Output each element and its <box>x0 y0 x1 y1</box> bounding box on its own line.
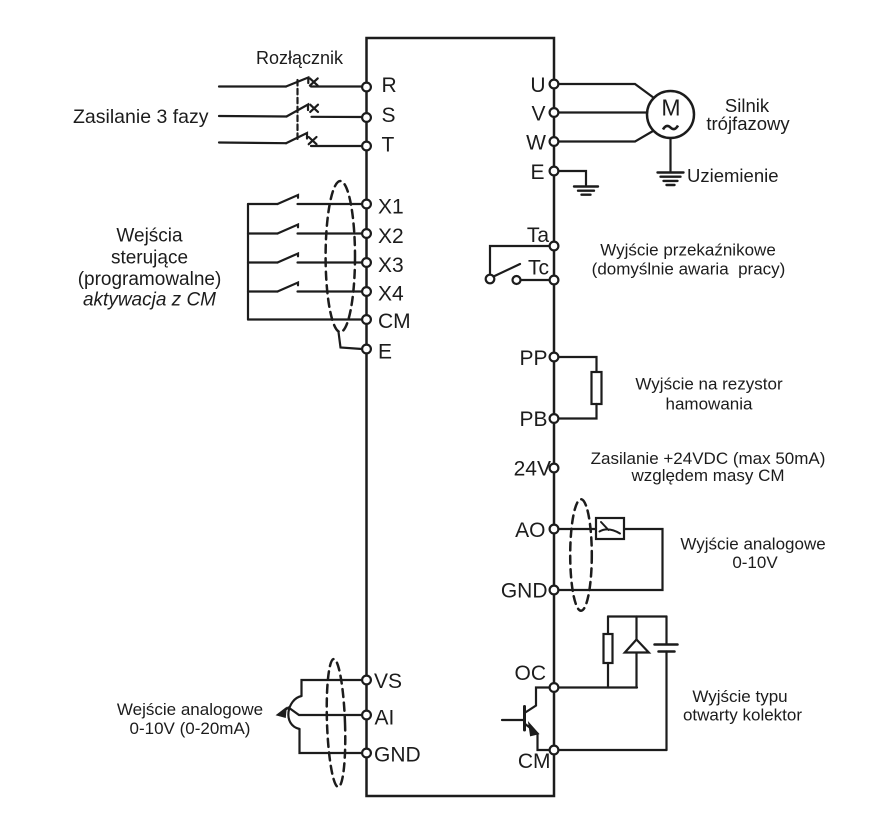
terminal S <box>362 113 371 122</box>
svg-text:0-10V (0-20mA): 0-10V (0-20mA) <box>130 719 251 738</box>
svg-text:Uziemienie: Uziemienie <box>687 165 779 186</box>
wire R to terminal <box>311 85 362 87</box>
switch blade X4 <box>278 283 299 292</box>
capacitor C1 plate 2 <box>659 650 675 653</box>
svg-text:W: W <box>526 132 546 155</box>
terminal Ta <box>550 242 559 251</box>
wire R supply lead <box>219 85 286 87</box>
terminal CM <box>362 315 371 324</box>
svg-text:Wyjście typu: Wyjście typu <box>692 687 787 706</box>
wire W to motor <box>558 131 653 142</box>
svg-text:(programowalne): (programowalne) <box>78 269 222 290</box>
terminal X4 <box>362 287 371 296</box>
svg-text:OC: OC <box>515 662 547 685</box>
svg-text:GND: GND <box>374 744 421 767</box>
terminal AI <box>362 711 371 720</box>
wire S supply lead <box>219 115 287 118</box>
wire VS to pot top <box>302 680 363 696</box>
shield ellipse (analog input) <box>325 659 347 788</box>
resistor R-brake <box>592 372 602 404</box>
terminal X2 <box>362 229 371 238</box>
terminal PP <box>550 353 559 362</box>
svg-text:(domyślnie awaria pracy): (domyślnie awaria pracy) <box>592 260 786 279</box>
relay blade <box>494 264 521 277</box>
svg-text:Wyjście analogowe: Wyjście analogowe <box>680 535 825 554</box>
wire X1 to terminal <box>298 203 363 205</box>
svg-text:Wejścia: Wejścia <box>116 226 183 247</box>
terminal E <box>362 345 371 354</box>
svg-text:U: U <box>530 74 545 97</box>
wire capacitor to CM <box>665 652 667 751</box>
svg-text:PB: PB <box>519 408 547 431</box>
wire X4 to terminal <box>298 290 363 292</box>
transistor Q1 emitter arrow <box>530 725 538 736</box>
terminal X1 <box>362 200 371 209</box>
wire resistor to OC <box>607 663 609 688</box>
terminal OC <box>550 683 559 692</box>
relay pivot contact <box>486 275 495 284</box>
terminal VS <box>362 676 371 685</box>
svg-text:GND: GND <box>501 580 548 603</box>
wire GND to pot bottom <box>300 729 363 753</box>
svg-text:Wyjście na rezystor: Wyjście na rezystor <box>635 375 783 394</box>
svg-text:AO: AO <box>515 519 545 542</box>
ground (E terminal) <box>574 187 598 195</box>
capacitor C1 plate 1 <box>655 643 678 646</box>
contact mark x (T) <box>309 137 317 144</box>
svg-text:S: S <box>382 104 396 127</box>
wire E terminal to ground <box>558 171 586 185</box>
svg-text:Rozłącznik: Rozłącznik <box>256 48 344 68</box>
wire rail to capacitor <box>665 617 667 645</box>
terminal T <box>362 142 371 151</box>
svg-text:X1: X1 <box>378 196 404 219</box>
svg-text:PP: PP <box>519 347 547 370</box>
svg-text:sterujące: sterujące <box>111 248 188 269</box>
wire CM row external <box>558 749 667 751</box>
wire X3 to terminal <box>298 261 363 263</box>
wire motor to earth <box>669 138 671 171</box>
svg-text:E: E <box>378 341 392 364</box>
wire meter to GND loop <box>558 529 663 590</box>
wire AO to meter <box>558 528 596 530</box>
terminal 24V <box>550 464 559 473</box>
wire U to motor <box>558 84 654 98</box>
svg-text:V: V <box>531 103 545 126</box>
transistor Q1 base lead <box>502 719 525 721</box>
transistor Q1 base bar <box>523 707 526 731</box>
PLACE-WIRES4 <box>362 80 558 758</box>
meter needle icon <box>600 522 621 534</box>
motor M1 body <box>647 91 694 138</box>
svg-text:VS: VS <box>374 670 402 693</box>
terminal W <box>550 137 559 146</box>
disconnector mechanical link (dashed) <box>296 80 298 139</box>
switch blade S <box>287 105 309 117</box>
svg-text:0-10V: 0-10V <box>732 553 778 572</box>
svg-text:24V: 24V <box>514 458 551 481</box>
svg-text:trójfazowy: trójfazowy <box>706 113 790 134</box>
svg-text:T: T <box>382 134 395 157</box>
terminal PB <box>550 414 559 423</box>
wiper arrow <box>283 708 289 712</box>
wire T to terminal <box>311 145 362 147</box>
wiper arrowhead <box>278 709 286 717</box>
digital input bus wire <box>247 204 249 320</box>
inverter outline <box>367 38 555 796</box>
svg-text:CM: CM <box>518 750 551 773</box>
svg-text:Tc: Tc <box>528 257 549 280</box>
terminal V <box>550 108 559 117</box>
svg-text:aktywacja z CM: aktywacja z CM <box>83 290 216 311</box>
svg-text:E: E <box>530 161 544 184</box>
wire rail to resistor <box>607 617 609 635</box>
ground (motor earth) <box>658 173 684 186</box>
switch blade X1 <box>278 195 299 204</box>
svg-text:względem masy CM: względem masy CM <box>630 466 784 485</box>
svg-text:otwarty kolektor: otwarty kolektor <box>683 706 802 725</box>
wire OC row external <box>558 686 637 688</box>
wire X1 row <box>248 203 278 205</box>
switch blade X2 <box>278 225 299 234</box>
relay fixed contact <box>513 276 521 284</box>
wire shield to E terminal <box>339 332 363 349</box>
wire brake resistor to PB <box>558 404 597 419</box>
svg-text:Wyjście przekaźnikowe: Wyjście przekaźnikowe <box>600 241 776 260</box>
wire AI to wiper <box>289 708 363 716</box>
svg-text:CM: CM <box>378 310 411 333</box>
svg-text:R: R <box>382 74 397 97</box>
potentiometer track arc <box>288 696 301 729</box>
diode D1 <box>625 640 649 653</box>
svg-text:X2: X2 <box>378 225 404 248</box>
wire X2 to terminal <box>298 232 363 234</box>
svg-text:X3: X3 <box>378 254 404 277</box>
svg-text:Zasilanie 3 fazy: Zasilanie 3 fazy <box>73 106 209 128</box>
terminal E (output earth) <box>550 167 559 176</box>
terminal X3 <box>362 258 371 267</box>
svg-text:M: M <box>661 95 680 121</box>
wire X2 row <box>248 232 278 234</box>
resistor R-load <box>604 634 613 663</box>
wire V to motor <box>558 111 647 113</box>
svg-text:AI: AI <box>375 707 395 730</box>
wire X4 row <box>248 290 278 292</box>
terminal CM (open collector) <box>550 746 559 755</box>
terminal GND (analog output) <box>550 586 559 595</box>
terminal GND (analog input) <box>362 749 371 758</box>
switch blade X3 <box>278 254 299 263</box>
wire emitter to CM <box>538 734 550 751</box>
svg-text:hamowania: hamowania <box>666 395 753 414</box>
wire PP to brake resistor <box>558 357 597 372</box>
wire CM common row <box>248 318 362 320</box>
wire Ta to relay pivot <box>490 246 549 274</box>
wire diode branch <box>635 617 637 688</box>
svg-text:X4: X4 <box>378 283 404 306</box>
wire top rail (OC network) <box>608 615 667 617</box>
meter box (analog output) <box>596 518 624 539</box>
terminal Tc <box>550 276 559 285</box>
transistor Q1 collector <box>525 688 550 714</box>
svg-text:Ta: Ta <box>527 224 550 247</box>
transistor Q1 emitter <box>525 724 532 729</box>
wire S to terminal <box>312 116 363 118</box>
svg-text:Wejście analogowe: Wejście analogowe <box>117 700 263 719</box>
shield ellipse (analog output) <box>570 499 592 611</box>
wire T supply lead <box>219 141 286 144</box>
shield ellipse (digital inputs) <box>326 181 355 332</box>
terminal R <box>362 83 371 92</box>
switch blade T <box>286 133 307 143</box>
terminal AO <box>550 525 559 534</box>
terminal U <box>550 80 559 89</box>
wire X3 row <box>248 261 278 263</box>
motor tilde <box>663 126 678 130</box>
wire Tc from fixed contact <box>521 279 549 281</box>
contact mark x (R) <box>310 78 318 85</box>
switch blade R <box>286 78 308 87</box>
contact mark x (S) <box>310 105 318 112</box>
